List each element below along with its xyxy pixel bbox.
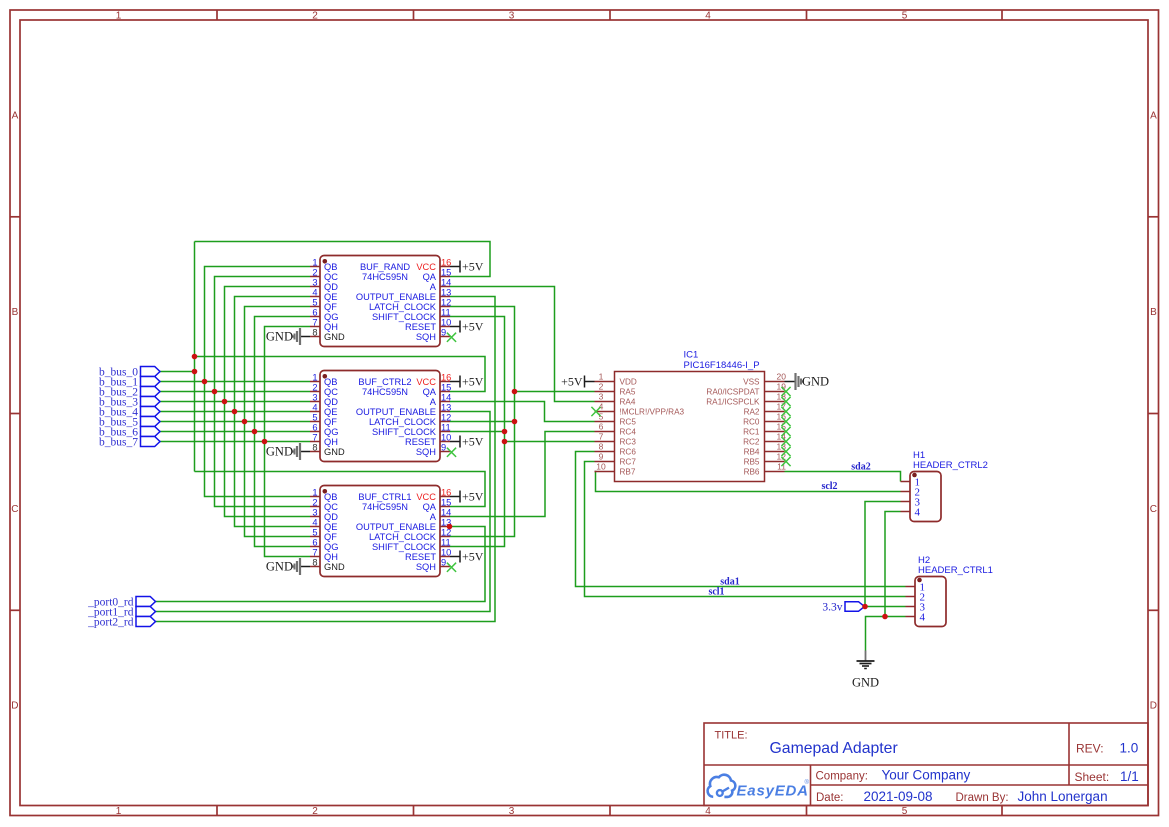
svg-text:RA0/ICSPDAT: RA0/ICSPDAT bbox=[706, 387, 759, 396]
svg-text:QB: QB bbox=[324, 262, 337, 272]
svg-text:Drawn By:: Drawn By: bbox=[956, 792, 1009, 804]
svg-text:9: 9 bbox=[441, 442, 446, 452]
svg-text:REV:: REV: bbox=[1076, 742, 1104, 756]
svg-text:+5V: +5V bbox=[462, 320, 484, 334]
svg-text:A: A bbox=[430, 282, 437, 292]
svg-text:A: A bbox=[430, 397, 437, 407]
svg-text:VCC: VCC bbox=[416, 492, 436, 502]
svg-text:OUTPUT_ENABLE: OUTPUT_ENABLE bbox=[356, 292, 436, 302]
svg-text:EasyEDA: EasyEDA bbox=[737, 782, 809, 799]
svg-text:GND: GND bbox=[266, 330, 293, 344]
svg-text:VSS: VSS bbox=[743, 377, 760, 386]
svg-text:BUF_CTRL1: BUF_CTRL1 bbox=[358, 492, 411, 502]
svg-text:RA5: RA5 bbox=[620, 387, 636, 396]
svg-text:A: A bbox=[1150, 111, 1157, 122]
svg-text:GND: GND bbox=[266, 445, 293, 459]
svg-text:16: 16 bbox=[441, 257, 451, 267]
svg-text:7: 7 bbox=[312, 317, 317, 327]
svg-text:GND: GND bbox=[802, 375, 829, 389]
svg-text:RC2: RC2 bbox=[743, 437, 760, 446]
svg-text:10: 10 bbox=[441, 317, 451, 327]
svg-text:15: 15 bbox=[441, 267, 451, 277]
svg-text:4: 4 bbox=[312, 402, 317, 412]
svg-text:VCC: VCC bbox=[416, 377, 436, 387]
svg-text:GND: GND bbox=[324, 562, 345, 572]
svg-text:QE: QE bbox=[324, 292, 337, 302]
svg-text:5: 5 bbox=[312, 297, 317, 307]
svg-text:9: 9 bbox=[441, 327, 446, 337]
svg-text:BUF_CTRL2: BUF_CTRL2 bbox=[358, 377, 411, 387]
svg-text:1: 1 bbox=[312, 487, 317, 497]
svg-text:2: 2 bbox=[599, 382, 604, 392]
svg-text:4: 4 bbox=[920, 611, 926, 623]
svg-text:D: D bbox=[1150, 701, 1157, 712]
svg-text:TITLE:: TITLE: bbox=[715, 730, 748, 742]
svg-text:1: 1 bbox=[116, 806, 122, 817]
svg-text:8: 8 bbox=[599, 442, 604, 452]
svg-text:10: 10 bbox=[441, 547, 451, 557]
svg-text:IC1: IC1 bbox=[684, 350, 699, 361]
svg-text:3: 3 bbox=[509, 806, 515, 817]
svg-text:20: 20 bbox=[777, 372, 787, 382]
svg-text:74HC595N: 74HC595N bbox=[362, 387, 408, 397]
svg-text:QG: QG bbox=[324, 542, 338, 552]
svg-text:QB: QB bbox=[324, 377, 337, 387]
svg-text:QD: QD bbox=[324, 512, 338, 522]
svg-text:A: A bbox=[430, 512, 437, 522]
svg-text:John Lonergan: John Lonergan bbox=[1018, 789, 1108, 804]
svg-text:+5V: +5V bbox=[462, 550, 484, 564]
svg-text:8: 8 bbox=[312, 327, 317, 337]
svg-text:Sheet:: Sheet: bbox=[1075, 770, 1110, 784]
svg-text:QD: QD bbox=[324, 397, 338, 407]
svg-text:8: 8 bbox=[312, 557, 317, 567]
svg-text:®: ® bbox=[805, 779, 810, 786]
svg-text:RC6: RC6 bbox=[620, 447, 637, 456]
svg-text:2021-09-08: 2021-09-08 bbox=[864, 789, 933, 804]
svg-text:1/1: 1/1 bbox=[1120, 769, 1139, 784]
svg-text:RB7: RB7 bbox=[620, 467, 636, 476]
svg-text:14: 14 bbox=[441, 507, 451, 517]
svg-text:1.0: 1.0 bbox=[1120, 741, 1139, 756]
svg-text:4: 4 bbox=[312, 287, 317, 297]
svg-text:RESET: RESET bbox=[405, 437, 436, 447]
svg-text:RA1/ICSPCLK: RA1/ICSPCLK bbox=[706, 397, 760, 406]
svg-text:Company:: Company: bbox=[816, 770, 868, 782]
svg-text:RA4: RA4 bbox=[620, 397, 636, 406]
svg-text:2: 2 bbox=[312, 497, 317, 507]
svg-text:3.3v: 3.3v bbox=[822, 602, 842, 614]
svg-text:7: 7 bbox=[312, 432, 317, 442]
svg-text:D: D bbox=[11, 701, 18, 712]
svg-text:5: 5 bbox=[599, 412, 604, 422]
svg-text:9: 9 bbox=[599, 452, 604, 462]
svg-text:RB5: RB5 bbox=[744, 457, 760, 466]
svg-text:6: 6 bbox=[312, 422, 317, 432]
svg-text:1: 1 bbox=[116, 10, 122, 21]
svg-text:SHIFT_CLOCK: SHIFT_CLOCK bbox=[372, 542, 437, 552]
svg-text:LATCH_CLOCK: LATCH_CLOCK bbox=[369, 532, 437, 542]
svg-text:HEADER_CTRL2: HEADER_CTRL2 bbox=[913, 460, 988, 471]
svg-text:QG: QG bbox=[324, 427, 338, 437]
svg-text:2: 2 bbox=[312, 382, 317, 392]
svg-text:RB6: RB6 bbox=[744, 467, 760, 476]
svg-text:RC0: RC0 bbox=[743, 417, 760, 426]
svg-text:+5V: +5V bbox=[561, 375, 583, 389]
svg-text:QC: QC bbox=[324, 502, 338, 512]
svg-text:scl1: scl1 bbox=[708, 587, 724, 598]
svg-text:GND: GND bbox=[852, 676, 879, 690]
svg-text:74HC595N: 74HC595N bbox=[362, 502, 408, 512]
svg-text:4: 4 bbox=[705, 10, 711, 21]
svg-text:16: 16 bbox=[441, 372, 451, 382]
svg-text:!MCLR!/VPP/RA3: !MCLR!/VPP/RA3 bbox=[620, 407, 685, 416]
svg-text:OUTPUT_ENABLE: OUTPUT_ENABLE bbox=[356, 522, 436, 532]
svg-text:B: B bbox=[12, 307, 19, 318]
svg-text:+5V: +5V bbox=[462, 490, 484, 504]
svg-text:11: 11 bbox=[441, 307, 451, 317]
svg-text:PIC16F18446-I_P: PIC16F18446-I_P bbox=[684, 360, 760, 371]
svg-text:15: 15 bbox=[441, 497, 451, 507]
svg-text:7: 7 bbox=[599, 432, 604, 442]
svg-text:+5V: +5V bbox=[462, 375, 484, 389]
svg-text:C: C bbox=[1150, 504, 1157, 515]
svg-text:3: 3 bbox=[312, 392, 317, 402]
svg-text:OUTPUT_ENABLE: OUTPUT_ENABLE bbox=[356, 407, 436, 417]
svg-text:A: A bbox=[12, 111, 19, 122]
svg-text:6: 6 bbox=[312, 307, 317, 317]
svg-text:QB: QB bbox=[324, 492, 337, 502]
svg-text:13: 13 bbox=[441, 287, 451, 297]
svg-text:SHIFT_CLOCK: SHIFT_CLOCK bbox=[372, 427, 437, 437]
svg-text:Your Company: Your Company bbox=[882, 768, 971, 783]
svg-text:QC: QC bbox=[324, 387, 338, 397]
svg-text:RC1: RC1 bbox=[743, 427, 760, 436]
svg-text:14: 14 bbox=[441, 277, 451, 287]
svg-text:QC: QC bbox=[324, 272, 338, 282]
svg-text:GND: GND bbox=[324, 332, 345, 342]
svg-text:9: 9 bbox=[441, 557, 446, 567]
svg-text:scl2: scl2 bbox=[821, 481, 837, 492]
svg-text:_port2_rd: _port2_rd bbox=[87, 616, 134, 628]
svg-text:RC7: RC7 bbox=[620, 457, 637, 466]
svg-text:SQH: SQH bbox=[416, 562, 436, 572]
svg-text:HEADER_CTRL1: HEADER_CTRL1 bbox=[918, 565, 993, 576]
svg-text:RA2: RA2 bbox=[744, 407, 760, 416]
svg-text:3: 3 bbox=[312, 507, 317, 517]
svg-text:16: 16 bbox=[441, 487, 451, 497]
svg-text:+5V: +5V bbox=[462, 260, 484, 274]
svg-text:QA: QA bbox=[423, 502, 437, 512]
svg-text:74HC595N: 74HC595N bbox=[362, 272, 408, 282]
svg-text:VCC: VCC bbox=[416, 262, 436, 272]
svg-text:QH: QH bbox=[324, 552, 338, 562]
svg-text:1: 1 bbox=[312, 257, 317, 267]
svg-text:GND: GND bbox=[324, 447, 345, 457]
svg-text:13: 13 bbox=[441, 402, 451, 412]
svg-text:QH: QH bbox=[324, 437, 338, 447]
svg-text:+5V: +5V bbox=[462, 435, 484, 449]
svg-text:RC4: RC4 bbox=[620, 427, 637, 436]
svg-text:1: 1 bbox=[599, 372, 604, 382]
svg-text:3: 3 bbox=[312, 277, 317, 287]
svg-text:12: 12 bbox=[441, 412, 451, 422]
svg-text:C: C bbox=[11, 504, 18, 515]
svg-text:3: 3 bbox=[599, 392, 604, 402]
svg-text:VDD: VDD bbox=[620, 377, 637, 386]
svg-text:4: 4 bbox=[915, 506, 921, 518]
svg-text:QA: QA bbox=[423, 387, 437, 397]
svg-text:QA: QA bbox=[423, 272, 437, 282]
svg-text:5: 5 bbox=[902, 10, 908, 21]
svg-text:Date:: Date: bbox=[816, 792, 844, 804]
svg-text:RB4: RB4 bbox=[744, 447, 760, 456]
svg-text:3: 3 bbox=[509, 10, 515, 21]
svg-text:11: 11 bbox=[441, 537, 451, 547]
svg-text:2: 2 bbox=[312, 10, 318, 21]
svg-text:14: 14 bbox=[441, 392, 451, 402]
svg-text:6: 6 bbox=[599, 422, 604, 432]
svg-text:1: 1 bbox=[312, 372, 317, 382]
svg-text:4: 4 bbox=[599, 402, 604, 412]
svg-text:4: 4 bbox=[312, 517, 317, 527]
svg-text:4: 4 bbox=[705, 806, 711, 817]
svg-text:sda2: sda2 bbox=[851, 462, 870, 473]
svg-text:B: B bbox=[1150, 307, 1157, 318]
svg-text:2: 2 bbox=[312, 267, 317, 277]
svg-text:2: 2 bbox=[312, 806, 318, 817]
svg-text:QF: QF bbox=[324, 417, 337, 427]
svg-text:QF: QF bbox=[324, 532, 337, 542]
svg-text:8: 8 bbox=[312, 442, 317, 452]
svg-text:15: 15 bbox=[441, 382, 451, 392]
svg-text:LATCH_CLOCK: LATCH_CLOCK bbox=[369, 417, 437, 427]
svg-text:10: 10 bbox=[596, 462, 606, 472]
svg-text:11: 11 bbox=[441, 422, 451, 432]
svg-text:QD: QD bbox=[324, 282, 338, 292]
svg-text:SQH: SQH bbox=[416, 332, 436, 342]
svg-text:SQH: SQH bbox=[416, 447, 436, 457]
svg-text:QE: QE bbox=[324, 522, 337, 532]
svg-text:QE: QE bbox=[324, 407, 337, 417]
svg-text:QG: QG bbox=[324, 312, 338, 322]
svg-text:RESET: RESET bbox=[405, 552, 436, 562]
svg-text:SHIFT_CLOCK: SHIFT_CLOCK bbox=[372, 312, 437, 322]
svg-text:5: 5 bbox=[312, 527, 317, 537]
svg-text:5: 5 bbox=[902, 806, 908, 817]
svg-text:10: 10 bbox=[441, 432, 451, 442]
svg-text:b_bus_7: b_bus_7 bbox=[99, 436, 138, 448]
svg-text:LATCH_CLOCK: LATCH_CLOCK bbox=[369, 302, 437, 312]
svg-text:5: 5 bbox=[312, 412, 317, 422]
svg-text:GND: GND bbox=[266, 560, 293, 574]
svg-text:QH: QH bbox=[324, 322, 338, 332]
svg-text:7: 7 bbox=[312, 547, 317, 557]
svg-text:12: 12 bbox=[441, 297, 451, 307]
svg-text:RESET: RESET bbox=[405, 322, 436, 332]
svg-text:RC3: RC3 bbox=[620, 437, 637, 446]
svg-text:RC5: RC5 bbox=[620, 417, 637, 426]
svg-text:QF: QF bbox=[324, 302, 337, 312]
svg-text:BUF_RAND: BUF_RAND bbox=[360, 262, 410, 272]
svg-text:6: 6 bbox=[312, 537, 317, 547]
svg-text:Gamepad Adapter: Gamepad Adapter bbox=[770, 740, 898, 757]
